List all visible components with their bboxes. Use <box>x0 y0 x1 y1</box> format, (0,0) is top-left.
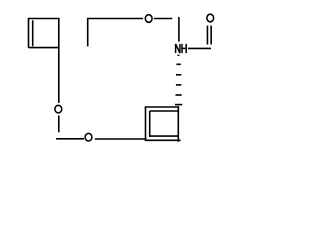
bond O1 down to CH2 <box>58 115 60 132</box>
atom O3 <box>145 15 152 23</box>
ring R2 outer top edge <box>145 106 180 108</box>
label NH amide <box>176 44 187 53</box>
bond ring R1 down to atom O1 <box>58 48 60 103</box>
bond CH2 to atom O2 <box>56 138 84 140</box>
carbonyl C=O double bond line 2 <box>210 26 212 45</box>
bond N to carbonyl C <box>188 47 211 49</box>
hashed stereo bond dash 3 <box>176 74 181 76</box>
bond CH down to N <box>178 17 180 42</box>
ring R1 cyclobutene (top-left) <box>29 19 59 48</box>
hashed stereo bond dash 4 <box>176 84 182 86</box>
double bond inner line of ring R1 left edge <box>32 20 34 46</box>
bond O2 to ring R2 <box>95 138 147 140</box>
ring R2 double bond inner top line <box>150 110 178 112</box>
bond O3 to CH2 <box>154 18 173 20</box>
ring R2 double bond inner bottom line <box>149 135 178 137</box>
ring R2 right edge <box>177 106 179 142</box>
ring R2 outer left edge <box>145 106 147 141</box>
ring R2 outer bottom edge <box>146 139 180 141</box>
atom O2 <box>85 133 92 141</box>
carbonyl C=O double bond line 1 <box>206 26 208 45</box>
hashed stereo bond dash 1 <box>177 54 179 56</box>
hashed stereo bond dash 2 <box>176 63 181 65</box>
hashed stereo bond dash 6 <box>175 104 182 106</box>
ring R2 double bond inner left line <box>149 111 151 137</box>
atom O4 carbonyl oxygen <box>207 14 214 22</box>
bond ethyl CH3-CH2 up to O3 <box>88 19 143 47</box>
hashed stereo bond dash 5 <box>176 94 182 96</box>
atom O1 <box>55 105 62 113</box>
